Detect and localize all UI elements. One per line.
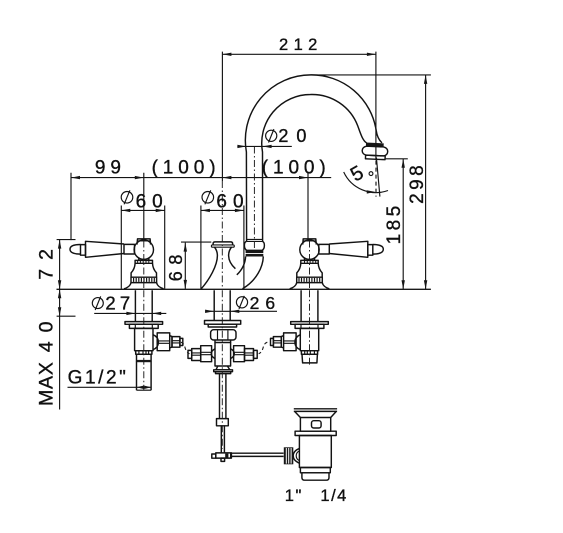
right handle+valve unit (mirrored)	[271, 239, 384, 354]
svg-text:40: 40	[36, 313, 58, 353]
svg-text:26: 26	[250, 293, 281, 313]
dim 72 (left)	[59, 240, 61, 290]
waste outlet pipe	[302, 473, 329, 480]
deck / counter line	[57, 288, 431, 290]
svg-text:212: 212	[279, 36, 323, 54]
waste upper body with overflow window	[300, 418, 330, 432]
pop-up rod guide pipe	[220, 374, 226, 419]
svg-text:60: 60	[216, 192, 249, 213]
rod coupling nut	[217, 419, 229, 426]
dim chain 99 / (100) / (100)	[71, 177, 331, 179]
svg-text:99: 99	[95, 157, 126, 178]
center mounting hex nut	[211, 330, 236, 340]
svg-text:298: 298	[407, 162, 428, 204]
svg-text:1": 1"	[285, 487, 303, 505]
svg-text:(100): (100)	[262, 157, 331, 178]
dim phi60 right	[201, 209, 244, 211]
dim phi27	[94, 312, 166, 314]
spout outlet collar (aerator)	[362, 142, 388, 159]
waste top flange	[294, 409, 337, 418]
svg-text:185: 185	[384, 202, 405, 244]
pop-up linkage horizontal bar	[231, 453, 283, 456]
right unit short tail	[302, 354, 317, 363]
svg-text:G1/2": G1/2"	[68, 368, 129, 389]
dim 212 (top)	[222, 53, 376, 55]
knurled adjuster knob	[284, 447, 294, 464]
5 degree tilt note	[344, 172, 388, 193]
dim 68 (center body height)	[184, 243, 186, 289]
center manifold body	[215, 343, 231, 367]
center flange washer	[205, 321, 241, 325]
center left inlet nut	[201, 346, 212, 362]
dim phi60 left	[121, 209, 164, 211]
waste lower body	[299, 436, 331, 468]
dim MAX 40 (left)	[59, 289, 61, 409]
svg-text:68: 68	[166, 248, 186, 281]
waste outlet nut	[300, 468, 330, 473]
dim phi26	[205, 310, 277, 312]
spout body (vase)	[213, 242, 233, 245]
center under-deck valve unit	[214, 290, 230, 320]
left handle+valve unit	[70, 239, 183, 354]
waste collar plate	[295, 431, 336, 435]
left unit threaded tail (G1/2)	[137, 354, 152, 361]
pull rod	[221, 425, 224, 453]
centerlines (dash-dot)	[221, 181, 223, 289]
spout gooseneck tube	[245, 75, 382, 242]
svg-text:72: 72	[36, 240, 58, 280]
svg-text:20: 20	[278, 126, 314, 146]
flexible hose hints (dashed)	[181, 342, 190, 354]
svg-text:27: 27	[105, 292, 134, 313]
dim 298 (right)	[425, 75, 427, 289]
spout tube lower collar + J-bend into body	[246, 239, 262, 241]
dim phi20	[237, 145, 291, 147]
svg-text:60: 60	[136, 192, 169, 213]
svg-text:(100): (100)	[152, 157, 221, 178]
svg-text:1/4: 1/4	[320, 487, 347, 505]
center right inlet nut	[234, 346, 245, 362]
svg-text:MAX: MAX	[36, 361, 58, 406]
pop-up rod housing flare	[216, 366, 230, 370]
dim 185 (right)	[402, 159, 404, 289]
